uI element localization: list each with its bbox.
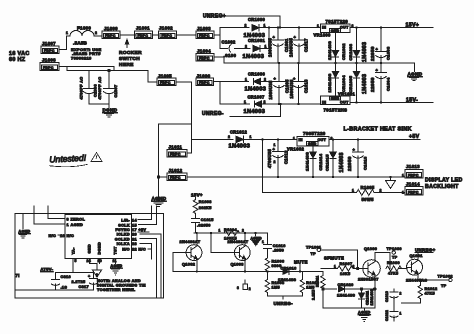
junction dots collector rail bbox=[196, 232, 257, 234]
svg-text:+: + bbox=[294, 35, 297, 40]
svg-text:TP: TP bbox=[392, 255, 398, 259]
svg-text:ROCKER: ROCKER bbox=[119, 50, 142, 56]
junction Q1600 emitter bbox=[374, 288, 376, 290]
svg-text:OUT: OUT bbox=[340, 25, 349, 29]
wire Q1601 emitter TP bbox=[418, 279, 449, 281]
svg-text:OUT: OUT bbox=[318, 138, 327, 142]
wire J1612 left to agnd line bbox=[159, 176, 168, 178]
wire CR1620 row bbox=[323, 288, 337, 290]
svg-text:J1602: J1602 bbox=[159, 26, 173, 31]
svg-text:CR1614: CR1614 bbox=[318, 153, 323, 170]
svg-text:47K5: 47K5 bbox=[425, 291, 435, 295]
note Untested handwriting bbox=[49, 153, 102, 167]
svg-text:2: 2 bbox=[228, 135, 230, 139]
svg-text:UNREG-: UNREG- bbox=[202, 111, 224, 117]
wire VR1602 out +5V rail bbox=[329, 138, 420, 140]
svg-text:GND: GND bbox=[308, 142, 317, 146]
capacitor C1601 bbox=[268, 28, 294, 64]
wire unreg- rail bbox=[268, 295, 303, 297]
regulator VR1600 7815T220 bbox=[314, 19, 354, 37]
svg-text:1: 1 bbox=[67, 223, 69, 227]
svg-text:Untested!: Untested! bbox=[49, 153, 87, 165]
connector J1612 bbox=[167, 168, 187, 181]
ground AGND right bbox=[408, 72, 423, 81]
svg-text:5: 5 bbox=[75, 259, 77, 263]
wire CR1600/CR1601 tie bbox=[268, 28, 270, 49]
svg-text:J1603: J1603 bbox=[197, 26, 211, 31]
capacitor C1607 bbox=[104, 71, 119, 105]
note grounds tie bbox=[97, 279, 146, 292]
pin ZEROL bbox=[48, 206, 85, 222]
junction dot J1612 agnd bbox=[157, 176, 159, 178]
svg-text:2N4403AT: 2N4403AT bbox=[228, 240, 249, 244]
svg-text:HERE: HERE bbox=[119, 62, 134, 68]
svg-text:7915T2HS: 7915T2HS bbox=[324, 108, 348, 113]
wire J1607 to fuse bbox=[59, 36, 70, 50]
wire +5V input rail bbox=[191, 138, 233, 140]
svg-text:FRPC: FRPC bbox=[170, 176, 181, 180]
svg-text:FRPC: FRPC bbox=[138, 34, 149, 38]
svg-text:C1613: C1613 bbox=[363, 156, 368, 170]
svg-text:1: 1 bbox=[402, 174, 404, 178]
svg-text:+: + bbox=[88, 275, 90, 279]
svg-text:7815T220: 7815T220 bbox=[326, 19, 349, 24]
svg-text:15: 15 bbox=[132, 223, 137, 227]
svg-text:ZEROL: ZEROL bbox=[71, 218, 86, 222]
label 16VAC 60HZ bbox=[9, 51, 30, 63]
svg-text:DGND: DGND bbox=[98, 242, 102, 255]
outer board box bbox=[15, 214, 164, 299]
note rocker switch bbox=[119, 40, 142, 69]
connector J1603 bbox=[196, 26, 214, 39]
wire branch to AGND left bbox=[159, 124, 192, 201]
svg-text:.02050: .02050 bbox=[197, 224, 211, 228]
wire box bottom bbox=[323, 307, 375, 309]
junction dots mid rail bbox=[278, 62, 382, 64]
wire cap row bbox=[402, 302, 421, 304]
svg-text:15V-: 15V- bbox=[406, 98, 418, 104]
wire neutral lower bbox=[67, 71, 157, 83]
svg-text:C1619: C1619 bbox=[385, 291, 389, 302]
svg-text:R1607: R1607 bbox=[340, 262, 353, 266]
junction TP1601 base bbox=[356, 267, 358, 269]
testpoint TP1601 bbox=[306, 245, 358, 268]
svg-text:J1604: J1604 bbox=[197, 49, 211, 54]
svg-text:MUTE: MUTE bbox=[294, 259, 308, 264]
svg-text:1: 1 bbox=[400, 312, 402, 316]
wire J1602 to J1603 bbox=[177, 34, 197, 36]
svg-text:FRPC: FRPC bbox=[160, 81, 171, 85]
svg-text:1: 1 bbox=[293, 137, 295, 141]
wire mute rail corner down bbox=[322, 272, 324, 276]
capacitor C317 bbox=[72, 273, 99, 291]
resistor R1603 bbox=[193, 199, 212, 215]
svg-text:Q1602: Q1602 bbox=[182, 262, 195, 266]
wire lower bridge upper bbox=[220, 81, 249, 83]
svg-text:FRPC: FRPC bbox=[44, 49, 55, 53]
svg-text:TP: TP bbox=[441, 284, 447, 288]
connector J1614 bbox=[402, 182, 423, 196]
svg-text:2: 2 bbox=[242, 229, 244, 233]
svg-text:4700PF AC: 4700PF AC bbox=[98, 77, 102, 100]
svg-text:UNREG-: UNREG- bbox=[274, 301, 294, 306]
svg-text:21: 21 bbox=[132, 237, 137, 241]
svg-text:2.2K5: 2.2K5 bbox=[312, 289, 316, 300]
junction dots bottom rail bbox=[278, 103, 300, 105]
diode CR1606 bbox=[245, 72, 274, 93]
diode CR1605 bbox=[348, 63, 368, 103]
svg-text:FRPC: FRPC bbox=[105, 34, 116, 38]
diode CR1621 vertical bbox=[359, 288, 374, 308]
svg-text:.2050: .2050 bbox=[273, 249, 284, 253]
svg-text:J1608: J1608 bbox=[42, 58, 56, 63]
ground triangle at J1613 rail bbox=[386, 177, 396, 189]
svg-text:FRPC: FRPC bbox=[199, 57, 210, 61]
svg-text:R1609: R1609 bbox=[387, 261, 400, 265]
pin GND bbox=[87, 244, 98, 270]
svg-text:1N4003: 1N4003 bbox=[244, 109, 266, 115]
diode CR1612 bbox=[228, 130, 297, 150]
svg-text:FRPC: FRPC bbox=[199, 34, 210, 38]
junction dots agnd rail bbox=[277, 176, 392, 178]
wire J1606 to bus bbox=[214, 81, 221, 83]
svg-text:+: + bbox=[376, 47, 379, 52]
svg-text:AGND: AGND bbox=[251, 237, 263, 241]
label 15V+ feed bbox=[191, 192, 203, 198]
pin AGND bbox=[34, 206, 83, 227]
svg-text:CR1601: CR1601 bbox=[248, 38, 265, 43]
svg-text:2: 2 bbox=[274, 160, 276, 164]
svg-text:C1604: C1604 bbox=[386, 77, 391, 91]
svg-text:VR1600: VR1600 bbox=[314, 33, 332, 38]
svg-text:2: 2 bbox=[95, 31, 97, 35]
pin ICLKD bbox=[117, 233, 161, 298]
capacitor C1612 bbox=[267, 139, 289, 177]
svg-text:15V+: 15V+ bbox=[191, 192, 203, 197]
svg-text:C1607: C1607 bbox=[114, 85, 118, 98]
ground DGND bbox=[103, 108, 118, 117]
label UNREG+ bbox=[203, 14, 280, 28]
wire collector rail bbox=[194, 232, 268, 234]
svg-text:CR1606: CR1606 bbox=[248, 72, 265, 77]
wire stub bbox=[66, 67, 68, 71]
svg-text:1M5: 1M5 bbox=[306, 286, 314, 290]
svg-text:70900219: 70900219 bbox=[71, 55, 92, 60]
svg-text:2: 2 bbox=[96, 273, 98, 277]
resistor R1610 bbox=[300, 272, 319, 297]
svg-text:60 HZ: 60 HZ bbox=[9, 57, 26, 63]
svg-text:N/C: N/C bbox=[67, 234, 75, 238]
wire J1608 neutral bbox=[59, 67, 114, 71]
resistor R1609 bbox=[386, 253, 407, 276]
capacitor C1604 bbox=[370, 63, 391, 103]
svg-text:24: 24 bbox=[87, 259, 91, 263]
junction dots emitter rail bbox=[196, 270, 302, 272]
svg-text:N/O: N/O bbox=[122, 248, 130, 252]
wire bus lower bbox=[219, 82, 221, 105]
capacitor C1603 bbox=[370, 28, 391, 64]
junction dots top rail bbox=[268, 26, 300, 28]
transistor Q1600 bbox=[358, 247, 390, 308]
svg-text:+: + bbox=[274, 76, 277, 81]
note export text bbox=[71, 47, 102, 60]
svg-text:2: 2 bbox=[380, 189, 382, 193]
svg-text:1N4148S: 1N4148S bbox=[305, 152, 310, 171]
svg-text:1: 1 bbox=[317, 24, 319, 28]
connector J1611 bbox=[167, 145, 187, 158]
svg-text:DIGITAL GROUNDS TIE: DIGITAL GROUNDS TIE bbox=[97, 284, 146, 288]
svg-text:NOTE: ANALOG AND: NOTE: ANALOG AND bbox=[97, 279, 141, 283]
pin DGND bbox=[98, 242, 102, 264]
connector J1600 bbox=[102, 26, 120, 39]
svg-text:1: 1 bbox=[250, 135, 252, 139]
svg-text:1: 1 bbox=[334, 264, 336, 268]
regulator VR1601 7915T2HS bbox=[321, 91, 356, 112]
svg-text:3: 3 bbox=[237, 286, 239, 290]
svg-text:AT5V-: AT5V- bbox=[41, 267, 54, 272]
svg-text:CR1605: CR1605 bbox=[348, 75, 353, 92]
svg-text:C1612: C1612 bbox=[284, 150, 289, 164]
svg-text:11: 11 bbox=[113, 259, 117, 263]
svg-text:FRPC: FRPC bbox=[408, 173, 419, 177]
svg-text:1M5: 1M5 bbox=[272, 286, 280, 290]
svg-text:1N4148S: 1N4148S bbox=[370, 289, 374, 306]
svg-text:R1605: R1605 bbox=[361, 185, 375, 190]
wire bus upper bbox=[219, 28, 221, 49]
svg-text:FRPC: FRPC bbox=[170, 153, 181, 157]
svg-text:J1613: J1613 bbox=[406, 164, 420, 169]
wire AGND rail middle bbox=[187, 176, 405, 178]
svg-text:C1615: C1615 bbox=[201, 218, 214, 222]
svg-text:+: + bbox=[273, 147, 276, 152]
svg-text:+: + bbox=[376, 68, 379, 73]
pin YA- bbox=[72, 247, 77, 273]
capacitor C1622 bbox=[385, 303, 402, 321]
svg-text:1N4003: 1N4003 bbox=[243, 54, 265, 60]
diode CR1603 bbox=[348, 28, 368, 64]
svg-text:CR1600: CR1600 bbox=[248, 17, 265, 22]
svg-text:2: 2 bbox=[249, 287, 251, 291]
svg-text:L/R-: L/R- bbox=[121, 219, 130, 223]
svg-text:IN: IN bbox=[322, 101, 326, 105]
svg-text:22050: 22050 bbox=[370, 77, 375, 92]
resistor R1608 bbox=[265, 272, 284, 297]
svg-text:TST: TST bbox=[114, 246, 118, 255]
svg-text:C1616: C1616 bbox=[273, 244, 286, 248]
svg-text:7!: 7! bbox=[16, 273, 20, 278]
ground AGND tst bbox=[111, 264, 123, 275]
svg-text:CR1607: CR1607 bbox=[248, 95, 265, 100]
svg-text:1: 1 bbox=[264, 24, 266, 28]
svg-text:F1600: F1600 bbox=[77, 26, 91, 31]
svg-text:VR1602: VR1602 bbox=[287, 147, 305, 152]
pin FSYNC bbox=[115, 228, 149, 232]
svg-text:1: 1 bbox=[244, 100, 246, 104]
svg-text:J1601: J1601 bbox=[136, 26, 150, 31]
capacitor C1617 bbox=[294, 28, 309, 64]
wire J1601 to J1602 bbox=[153, 34, 159, 36]
svg-text:1N4003: 1N4003 bbox=[245, 87, 267, 93]
svg-text:10K5: 10K5 bbox=[340, 272, 350, 276]
svg-text:FSYNC: FSYNC bbox=[115, 228, 130, 232]
label UNREG- top bbox=[202, 104, 281, 117]
capacitor C1605 bbox=[268, 63, 294, 104]
svg-text:L-BRACKET HEAT SINK: L-BRACKET HEAT SINK bbox=[344, 127, 412, 133]
diode CR1615 bbox=[325, 139, 346, 177]
connector J1613 bbox=[402, 164, 423, 178]
pin NC bbox=[49, 234, 75, 238]
svg-text:1N4003: 1N4003 bbox=[362, 42, 368, 62]
svg-text:TP1601: TP1601 bbox=[306, 245, 321, 249]
svg-text:C316: C316 bbox=[61, 275, 71, 279]
svg-text:IN: IN bbox=[299, 138, 303, 142]
svg-text:SFMUTE: SFMUTE bbox=[324, 255, 344, 260]
svg-text:J1600: J1600 bbox=[104, 26, 118, 31]
svg-text:YA-: YA- bbox=[72, 247, 76, 255]
pin SCLK bbox=[118, 206, 156, 227]
svg-text:3: 3 bbox=[67, 218, 69, 222]
svg-text:1N4003: 1N4003 bbox=[339, 152, 345, 172]
fuse F1600 bbox=[66, 26, 102, 46]
svg-text:R1603: R1603 bbox=[199, 200, 212, 204]
svg-text:2: 2 bbox=[245, 45, 247, 49]
svg-text:Q1601: Q1601 bbox=[410, 254, 423, 258]
diode CR1614 on gnd stem bbox=[305, 146, 324, 177]
svg-text:1: 1 bbox=[352, 189, 354, 193]
label UNREG+ bottom bbox=[415, 247, 436, 252]
svg-text:TOGETHER HERE.: TOGETHER HERE. bbox=[97, 288, 136, 292]
svg-text:2: 2 bbox=[264, 78, 266, 82]
svg-text:Q1603: Q1603 bbox=[231, 262, 244, 266]
svg-text:R1606: R1606 bbox=[272, 259, 285, 263]
svg-text:+: + bbox=[353, 147, 356, 152]
resistor R1605 bbox=[352, 185, 405, 202]
svg-text:4700PF AC: 4700PF AC bbox=[80, 77, 84, 100]
transistor Q1601 bbox=[406, 253, 427, 283]
svg-text:N/C: N/C bbox=[49, 234, 57, 238]
ground AGND bottom right bbox=[358, 308, 371, 321]
testpoint TP1602 bbox=[438, 275, 453, 289]
pin GCLKD bbox=[115, 237, 157, 298]
diode CR1601 bbox=[243, 38, 270, 60]
svg-text:C1602: C1602 bbox=[222, 40, 236, 45]
svg-text:22 N/C: 22 N/C bbox=[132, 248, 146, 252]
regulator VR1602 7805T220 bbox=[287, 131, 333, 152]
svg-text:AGND: AGND bbox=[19, 230, 31, 234]
wire emitter rail bbox=[173, 271, 323, 273]
diode CR1607 bbox=[244, 95, 321, 116]
jumper E1602 below Q1603 bbox=[237, 280, 251, 291]
svg-text:1N4148S: 1N4148S bbox=[327, 73, 332, 92]
svg-text:OUT: OUT bbox=[340, 101, 349, 105]
diode CR1620 bbox=[322, 283, 375, 298]
label UNREG- bottom bbox=[274, 296, 294, 306]
svg-text:UNREG+: UNREG+ bbox=[203, 14, 226, 20]
svg-text:202K5: 202K5 bbox=[199, 206, 212, 210]
svg-text:C1618: C1618 bbox=[304, 79, 309, 93]
svg-text:.5A5B: .5A5B bbox=[73, 41, 87, 46]
svg-text:.0100: .0100 bbox=[224, 53, 237, 58]
svg-text:ICLKD: ICLKD bbox=[117, 233, 130, 237]
svg-text:2: 2 bbox=[264, 100, 266, 104]
connector J1601 bbox=[135, 26, 153, 39]
connector J1602 bbox=[159, 26, 177, 39]
resistor R1607 bbox=[334, 262, 363, 276]
wire Q1602 base bbox=[173, 253, 186, 272]
capacitor C1602 bbox=[220, 40, 250, 59]
capacitor C1616 bbox=[262, 233, 286, 258]
svg-text:2N3919S7: 2N3919S7 bbox=[358, 278, 379, 282]
resistor R1612 bbox=[418, 279, 437, 303]
svg-text:AGND: AGND bbox=[358, 311, 371, 315]
label MUTE bbox=[294, 259, 308, 271]
connector J1608 bbox=[40, 58, 59, 71]
capacitor C1615 bbox=[192, 218, 214, 233]
wire top bridge bbox=[220, 27, 249, 29]
svg-text:+: + bbox=[293, 76, 296, 81]
diode CR1604 on gnd stem bbox=[327, 63, 346, 96]
svg-text:J1611: J1611 bbox=[169, 145, 183, 150]
pin N/O bbox=[122, 248, 151, 252]
wire J1605 down bbox=[176, 82, 191, 124]
junction dots C1612 bbox=[261, 138, 279, 140]
transistor Q1602 bbox=[180, 233, 202, 272]
resistor R1604 bbox=[219, 228, 245, 241]
capacitor C1618 bbox=[293, 63, 309, 104]
wire VR1601 out rail 15V- bbox=[350, 102, 433, 104]
resistor R1606 bbox=[265, 258, 284, 272]
wire unreg to R1605 bbox=[263, 139, 354, 192]
label AT5V- bbox=[41, 267, 94, 273]
svg-text:Q1600: Q1600 bbox=[364, 247, 377, 251]
capacitor C1613 bbox=[347, 139, 368, 177]
IC U300 box bbox=[65, 215, 132, 259]
connector J1604 bbox=[196, 49, 214, 62]
testpoint TP1600 bbox=[387, 247, 402, 259]
wire mid AGND rail bbox=[224, 63, 415, 72]
svg-text:J1614: J1614 bbox=[406, 182, 420, 187]
capacitor C316 bbox=[51, 273, 71, 291]
junction dots 15V- rail bbox=[355, 101, 382, 103]
svg-text:TP: TP bbox=[311, 252, 317, 256]
ground AGND middle-left bbox=[152, 196, 167, 206]
svg-text:1N4148S: 1N4148S bbox=[327, 41, 332, 60]
svg-text:4700U35: 4700U35 bbox=[267, 149, 272, 168]
svg-text:1000U35: 1000U35 bbox=[268, 80, 273, 99]
svg-text:1: 1 bbox=[66, 31, 68, 35]
capacitor C1606 bbox=[80, 71, 103, 105]
wire caps bottom bbox=[89, 104, 109, 108]
ground triangle dgnd bbox=[93, 270, 102, 277]
wire J1611 up bbox=[187, 124, 191, 153]
svg-text:ICLKA: ICLKA bbox=[117, 242, 130, 246]
svg-text:FRPC: FRPC bbox=[199, 81, 210, 85]
svg-text:CR1615: CR1615 bbox=[325, 154, 330, 171]
diode CR1600 bbox=[244, 17, 321, 39]
svg-text:1000U35: 1000U35 bbox=[289, 38, 294, 57]
svg-text:DISPLAY LED: DISPLAY LED bbox=[425, 178, 463, 184]
svg-text:CR1602: CR1602 bbox=[341, 43, 346, 60]
svg-text:15V+: 15V+ bbox=[406, 23, 420, 29]
svg-text:1N4003: 1N4003 bbox=[362, 74, 368, 94]
svg-text:R1611: R1611 bbox=[316, 275, 320, 287]
svg-text:C1603: C1603 bbox=[386, 46, 391, 60]
svg-text:AGND: AGND bbox=[408, 72, 423, 77]
svg-text:FRPC: FRPC bbox=[43, 66, 54, 70]
svg-text:BACKLIGHT: BACKLIGHT bbox=[425, 184, 459, 190]
svg-text:7805T220: 7805T220 bbox=[303, 131, 326, 136]
svg-text:22050: 22050 bbox=[370, 46, 375, 61]
